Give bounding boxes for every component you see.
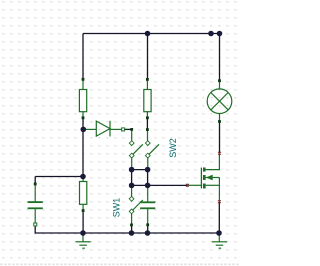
svg-text:SW2: SW2 (168, 138, 178, 158)
svg-text:SW1: SW1 (112, 198, 122, 218)
